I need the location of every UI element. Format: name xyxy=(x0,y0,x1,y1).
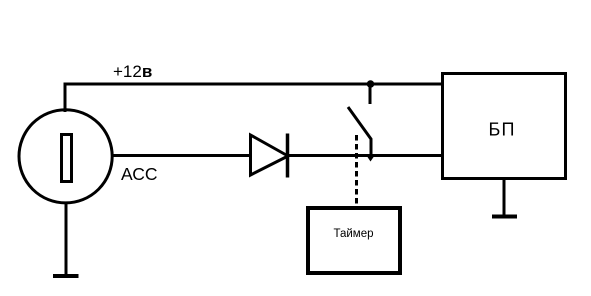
dashed control link from switch blade to timer xyxy=(355,135,358,206)
svg-text:АСС: АСС xyxy=(121,164,158,184)
diode D1 xyxy=(251,134,289,178)
ground at PSU xyxy=(492,180,517,217)
switch K1 blade xyxy=(348,107,371,156)
wire from junction down to switch K1 top contact xyxy=(369,84,372,104)
timer box xyxy=(308,208,400,273)
svg-text:+12в: +12в xyxy=(113,62,152,81)
svg-text:Таймер: Таймер xyxy=(333,228,373,240)
wire ACC from S1 to diode anode xyxy=(112,154,251,157)
wire from diode cathode to PSU xyxy=(288,154,441,157)
svg-text:БП: БП xyxy=(489,120,516,140)
node junction dot on +12V rail xyxy=(367,80,375,88)
key switch S1 (ignition switch circle with key slot) xyxy=(19,110,112,203)
wire from S1 top to +12V rail xyxy=(64,84,67,112)
ground at S1 xyxy=(53,202,79,276)
switch K1 arrowhead at bottom contact xyxy=(366,155,376,162)
PSU box БП xyxy=(443,74,566,179)
wire +12V rail (top horizontal) xyxy=(64,83,442,86)
